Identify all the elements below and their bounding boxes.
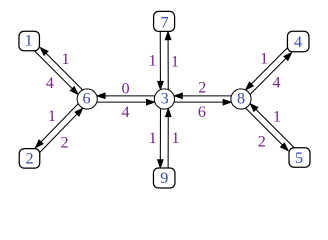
svg-text:2: 2 <box>61 134 69 152</box>
edge 8->3 <box>174 93 231 99</box>
node 3 <box>154 89 174 109</box>
svg-text:6: 6 <box>198 103 206 121</box>
svg-text:1: 1 <box>171 53 179 71</box>
svg-text:1: 1 <box>260 49 268 67</box>
edge 5->8 <box>250 104 294 148</box>
node 2 <box>19 149 40 169</box>
svg-text:1: 1 <box>273 107 281 125</box>
svg-text:4: 4 <box>46 74 54 92</box>
node 7 <box>154 11 175 31</box>
node 4 <box>287 31 309 52</box>
svg-text:8: 8 <box>237 90 245 108</box>
svg-text:4: 4 <box>294 33 302 51</box>
svg-text:7: 7 <box>160 13 168 31</box>
svg-text:1: 1 <box>149 129 157 147</box>
edge 3->6 <box>97 93 155 99</box>
edge 3->7 <box>165 31 171 89</box>
svg-text:4: 4 <box>121 103 129 121</box>
edge 7->3 <box>158 31 164 89</box>
svg-text:1: 1 <box>25 32 33 50</box>
svg-text:1: 1 <box>171 129 179 147</box>
edge 6->1 <box>40 47 83 90</box>
edge 8->5 <box>246 108 289 151</box>
svg-text:6: 6 <box>83 90 91 108</box>
edge 4->8 <box>245 48 287 90</box>
edge 3->8 <box>174 99 231 105</box>
svg-text:2: 2 <box>258 133 266 151</box>
svg-text:1: 1 <box>149 52 157 70</box>
svg-text:5: 5 <box>295 149 303 167</box>
edge 8->4 <box>250 53 292 95</box>
svg-text:1: 1 <box>61 50 69 68</box>
svg-text:4: 4 <box>273 73 281 91</box>
svg-text:3: 3 <box>161 90 169 108</box>
svg-text:0: 0 <box>121 80 129 98</box>
edge 1->6 <box>34 51 78 95</box>
node 8 <box>231 89 251 109</box>
edge 2->6 <box>40 108 83 152</box>
svg-text:9: 9 <box>160 169 168 187</box>
edge 9->3 <box>165 108 171 168</box>
node 5 <box>289 148 310 168</box>
svg-text:1: 1 <box>48 107 56 125</box>
svg-text:2: 2 <box>25 150 33 168</box>
svg-text:2: 2 <box>198 79 206 97</box>
edge 6->3 <box>97 99 155 105</box>
edge 6->2 <box>35 104 78 148</box>
edge 3->9 <box>157 108 163 168</box>
node 6 <box>77 89 97 109</box>
node 9 <box>153 168 175 188</box>
node 1 <box>19 31 40 51</box>
